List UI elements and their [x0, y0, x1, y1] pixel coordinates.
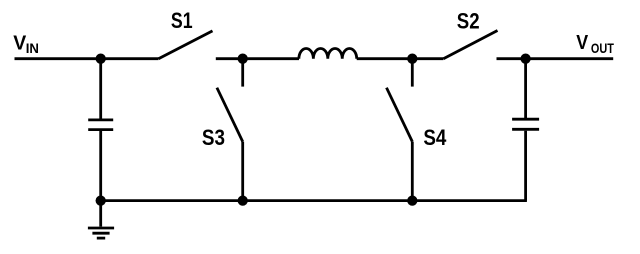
switch S3 bottom lead: [241, 142, 244, 201]
svg-text:S2: S2: [457, 8, 480, 33]
svg-text:IN: IN: [26, 41, 39, 56]
junction node S3 bottom: [238, 195, 248, 205]
switch S4 blade: [387, 88, 413, 142]
svg-text:S1: S1: [171, 8, 193, 33]
switch S2 blade: [443, 31, 497, 59]
wire S1 right contact to node SW1: [216, 57, 243, 60]
svg-text:V: V: [576, 32, 588, 54]
wire S2 right contact to VOUT rail: [497, 57, 614, 60]
switch S4 bottom lead: [411, 142, 414, 201]
svg-text:S3: S3: [202, 125, 225, 150]
wire inductor to node SW2: [357, 57, 413, 60]
switch S3 blade: [217, 88, 243, 142]
capacitor C2 plates: [512, 118, 539, 121]
wire bottom rail ground to S3: [101, 199, 243, 202]
switch S1 blade: [159, 31, 213, 59]
junction node S4 bottom: [407, 195, 417, 205]
capacitor C1 top lead: [99, 59, 102, 119]
junction node SW1: [238, 54, 248, 64]
junction node SW2: [407, 54, 417, 64]
net label VIN: [13, 32, 39, 56]
capacitor C1 bottom lead: [99, 131, 102, 201]
switch S4 top contact stub: [411, 59, 414, 87]
svg-text:V: V: [13, 32, 27, 54]
wire node SW2 to S2 hinge: [412, 57, 443, 60]
wire bottom rail S4 to C2: [412, 199, 527, 202]
svg-text:S4: S4: [423, 125, 447, 150]
junction node ground: [96, 195, 106, 205]
junction node VIN/C1: [96, 54, 106, 64]
junction node VOUT/C2: [520, 54, 530, 64]
inductor L1: [299, 48, 357, 58]
capacitor C1 plates: [88, 119, 113, 122]
net label VOUT: [576, 32, 614, 56]
capacitor C2 bottom lead: [524, 131, 527, 201]
switch S3 top contact stub: [241, 59, 244, 87]
svg-text:OUT: OUT: [591, 41, 614, 56]
capacitor C2 top lead: [524, 59, 527, 119]
ground symbol: [88, 201, 114, 239]
wire node SW1 to inductor: [243, 57, 299, 60]
wire bottom rail S3 to S4: [243, 199, 413, 202]
wire VIN input rail: [15, 57, 159, 60]
